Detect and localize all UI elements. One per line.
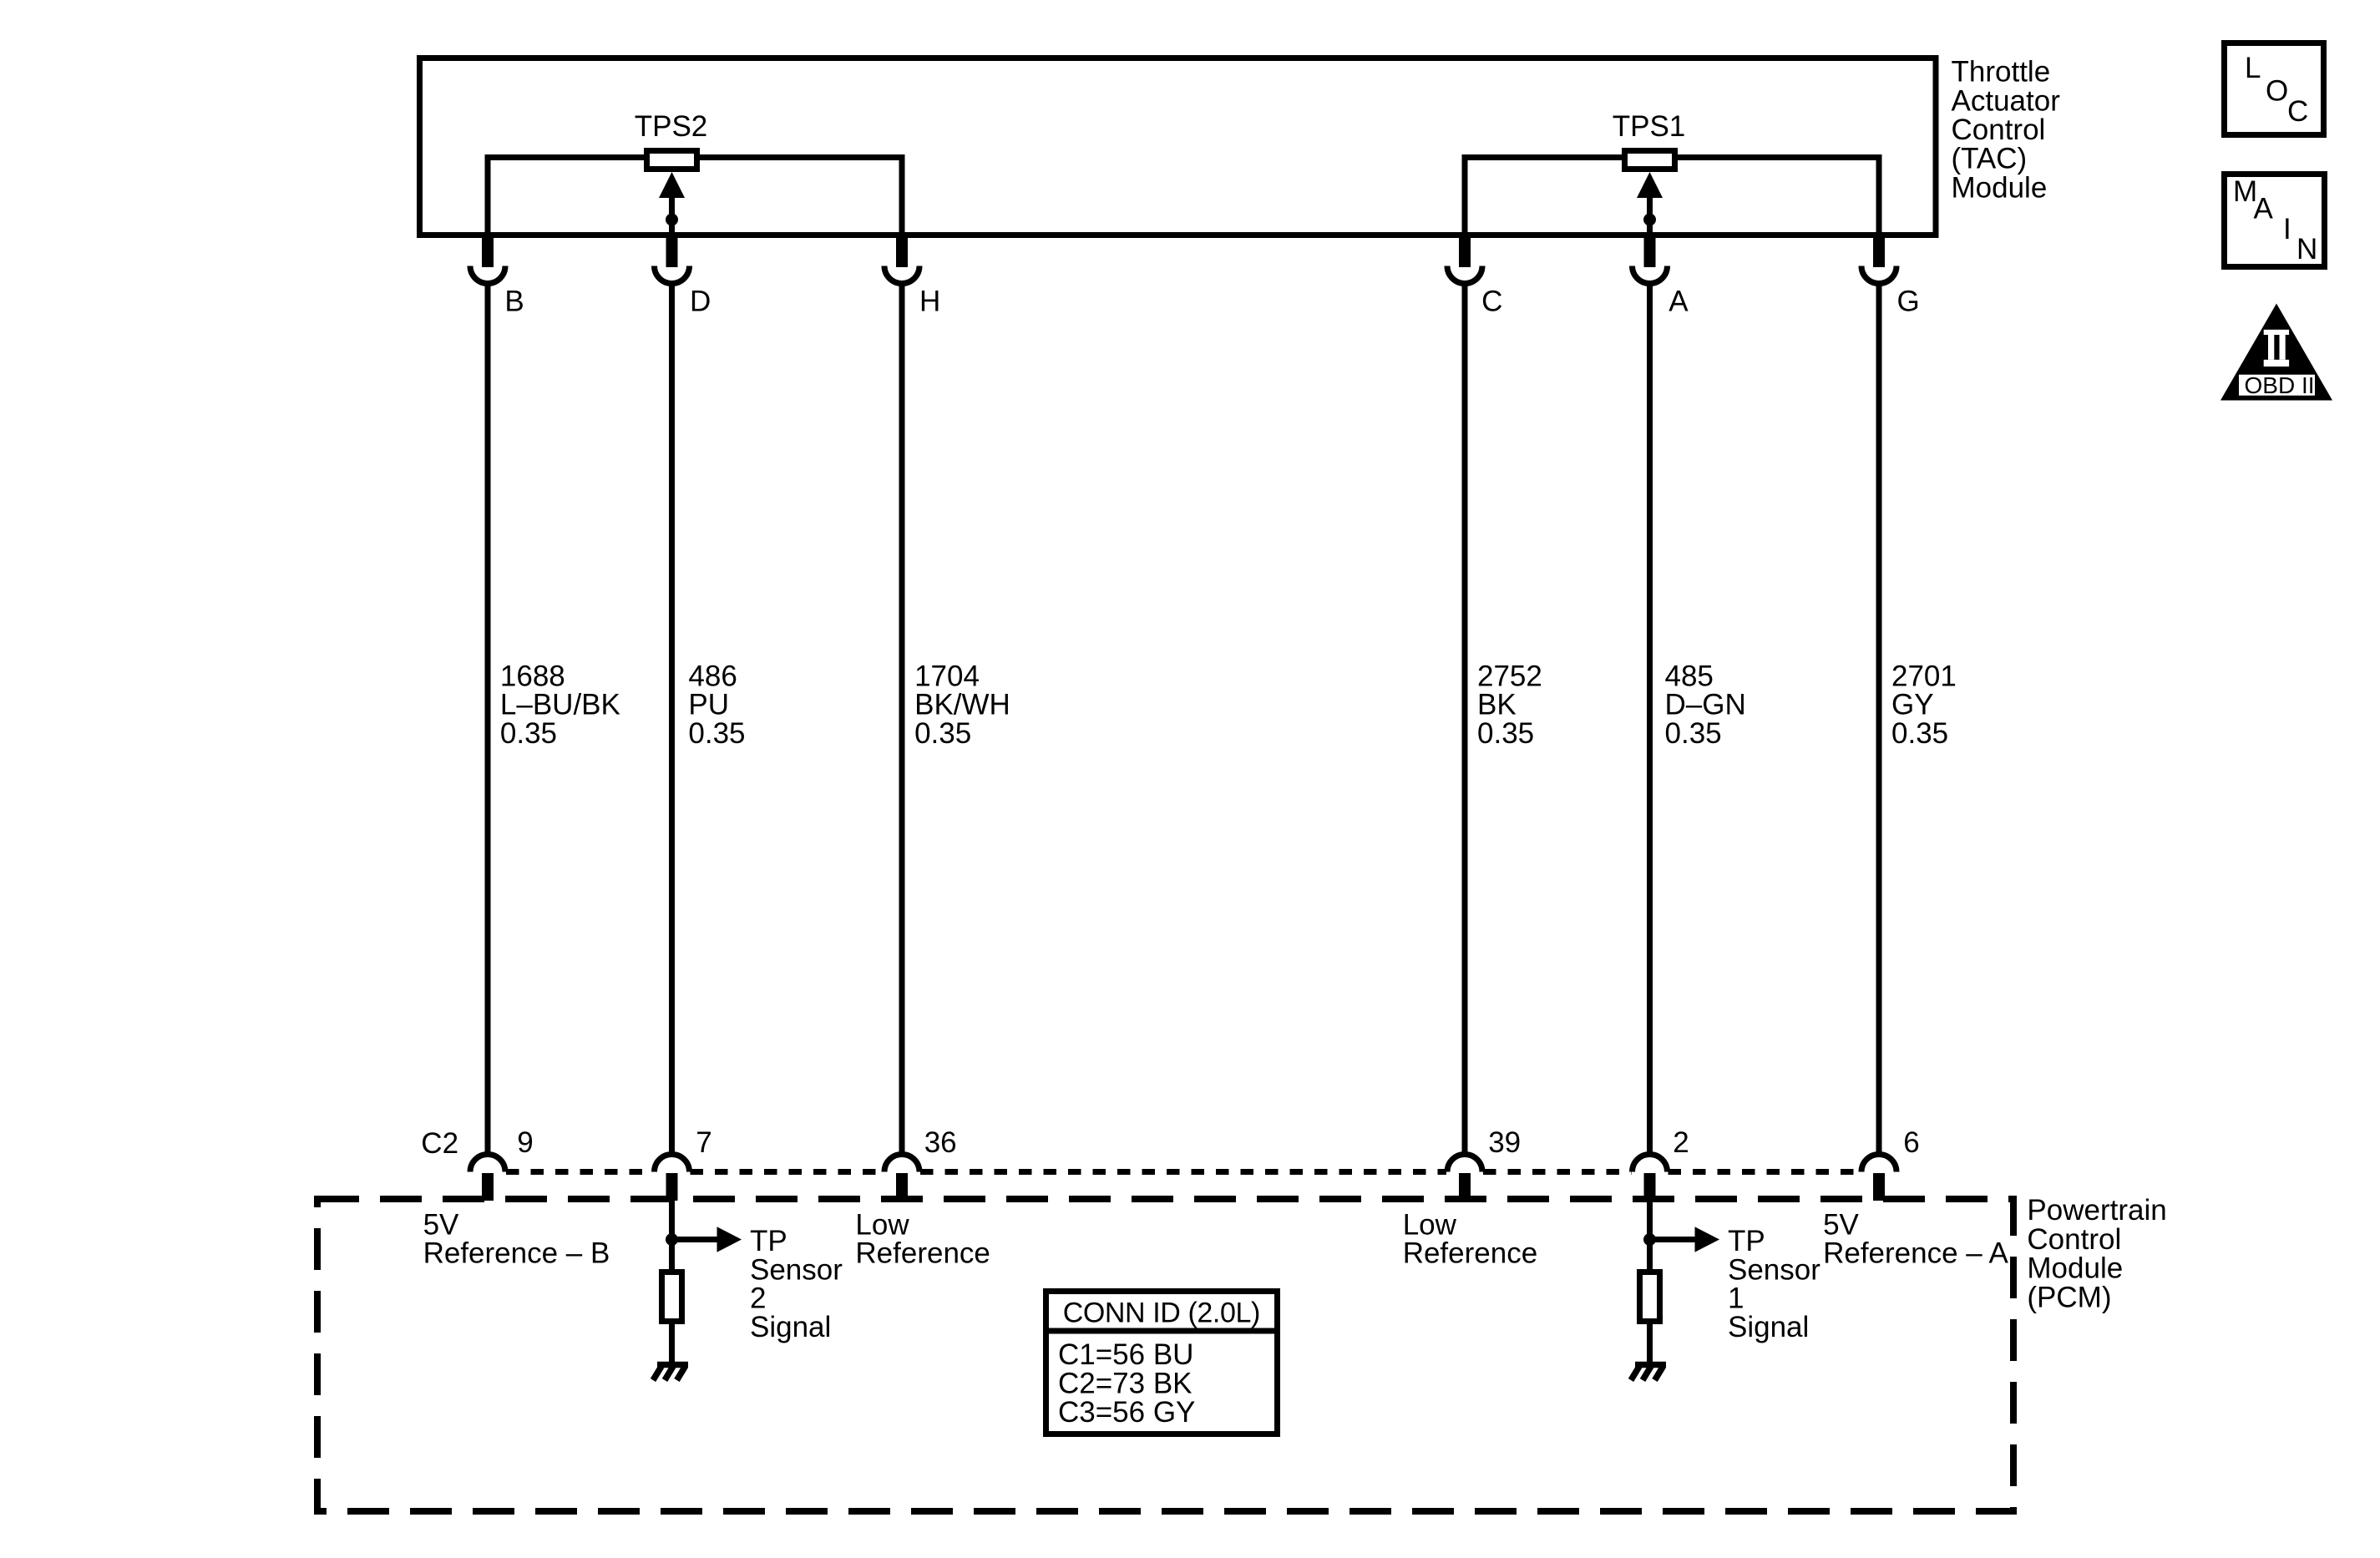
pin label C <box>1481 286 1502 318</box>
svg-text:Reference – A: Reference – A <box>1823 1237 2008 1270</box>
TPS1 wiper arrow <box>1637 172 1663 235</box>
svg-text:PU: PU <box>688 689 729 721</box>
CONN ID title <box>1063 1297 1260 1329</box>
svg-text:D–GN: D–GN <box>1665 689 1746 721</box>
resistor R2 <box>662 1272 682 1322</box>
svg-text:H: H <box>919 286 940 318</box>
svg-text:GY: GY <box>1891 689 1934 721</box>
svg-text:0.35: 0.35 <box>688 717 745 750</box>
PCM connector C2 interface dotted line <box>506 1169 1861 1175</box>
svg-text:1704: 1704 <box>914 660 980 692</box>
svg-text:L–BU/BK: L–BU/BK <box>500 689 620 721</box>
svg-text:Module: Module <box>2027 1252 2123 1285</box>
svg-text:1688: 1688 <box>500 660 565 692</box>
svg-text:TP: TP <box>1728 1225 1765 1257</box>
svg-text:9: 9 <box>517 1126 533 1159</box>
svg-text:C1=56 BU: C1=56 BU <box>1058 1338 1193 1371</box>
wire label 1688 <box>500 660 620 750</box>
wire TPS2 track <box>488 158 902 235</box>
net label Low Reference (left) <box>855 1208 990 1269</box>
wire TP sensor 1 signal inside PCM <box>1647 1201 1653 1272</box>
pin number 36 <box>924 1126 957 1159</box>
pin number 9 <box>517 1126 533 1159</box>
svg-text:Throttle: Throttle <box>1952 56 2051 89</box>
junction dot on TPS2 wiper <box>666 214 678 226</box>
wire A to PCM <box>1647 283 1653 1154</box>
TAC connector pin A <box>1633 238 1668 284</box>
svg-text:A: A <box>1669 286 1689 318</box>
wire to ground 1 <box>1647 1324 1653 1364</box>
PCM dashed box <box>317 1199 2013 1511</box>
svg-text:5V: 5V <box>423 1208 459 1241</box>
wire TPS1 track <box>1465 158 1879 235</box>
svg-text:TP: TP <box>750 1225 787 1257</box>
CONN ID rows <box>1058 1338 1195 1429</box>
junction node TP sensor 2 <box>666 1233 678 1246</box>
svg-text:1: 1 <box>1728 1282 1744 1315</box>
TAC connector pin G <box>1861 238 1896 284</box>
svg-text:5V: 5V <box>1823 1208 1859 1241</box>
svg-text:O: O <box>2266 75 2288 108</box>
wire TP sensor 2 signal inside PCM <box>669 1201 675 1272</box>
pin label H <box>919 286 940 318</box>
wire label 2701 <box>1891 660 1957 750</box>
svg-text:Signal: Signal <box>750 1311 831 1343</box>
pin number 2 <box>1673 1126 1689 1159</box>
LOC letters <box>2245 52 2308 128</box>
svg-text:6: 6 <box>1903 1126 1919 1159</box>
pin label G <box>1897 286 1920 318</box>
svg-text:C: C <box>2287 95 2308 128</box>
arrow to TP Sensor 2 Signal <box>672 1227 742 1252</box>
svg-text:(PCM): (PCM) <box>2027 1281 2111 1313</box>
TAC module label <box>1952 56 2061 205</box>
net label 5V Reference - B <box>423 1208 610 1269</box>
potentiometer TPS1 body <box>1625 151 1675 169</box>
svg-text:36: 36 <box>924 1126 957 1159</box>
pin label B <box>504 286 524 318</box>
MAIN letters <box>2233 175 2317 266</box>
svg-text:Reference – B: Reference – B <box>423 1237 610 1270</box>
svg-text:Control: Control <box>2027 1223 2121 1256</box>
arrow to TP Sensor 1 Signal <box>1650 1227 1720 1252</box>
net label 5V Reference - A <box>1823 1208 2008 1269</box>
svg-text:B: B <box>504 286 524 318</box>
svg-text:485: 485 <box>1665 660 1714 692</box>
svg-text:39: 39 <box>1488 1126 1521 1159</box>
svg-text:0.35: 0.35 <box>1891 717 1948 750</box>
svg-text:Signal: Signal <box>1728 1311 1809 1343</box>
wire label 1704 <box>914 660 1010 750</box>
svg-text:Sensor: Sensor <box>1728 1253 1820 1286</box>
TPS2 wiper arrow <box>659 172 685 235</box>
svg-text:TPS1: TPS1 <box>1613 110 1686 143</box>
svg-text:0.35: 0.35 <box>1477 717 1534 750</box>
svg-text:Module: Module <box>1952 171 2048 204</box>
svg-text:Actuator: Actuator <box>1952 84 2061 117</box>
PCM connector pin 2 <box>1633 1155 1668 1201</box>
PCM connector pin 7 <box>655 1155 690 1201</box>
junction dot on TPS1 wiper <box>1643 214 1656 226</box>
svg-text:Control: Control <box>1952 114 2046 146</box>
TAC connector pin D <box>655 238 690 284</box>
TAC connector pin B <box>470 238 505 284</box>
svg-text:D: D <box>690 286 711 318</box>
MAIN symbol box <box>2225 175 2325 267</box>
pin label A <box>1669 286 1689 318</box>
svg-text:Low: Low <box>1403 1208 1457 1241</box>
OBD II triangle symbol <box>2220 304 2332 401</box>
svg-text:7: 7 <box>696 1126 711 1159</box>
svg-text:2: 2 <box>750 1282 766 1315</box>
svg-text:C3=56 GY: C3=56 GY <box>1058 1396 1195 1429</box>
wire H to PCM <box>899 283 905 1154</box>
svg-text:C: C <box>1481 286 1502 318</box>
net label TP Sensor 1 Signal <box>1728 1225 1820 1343</box>
svg-text:TPS2: TPS2 <box>635 110 708 143</box>
svg-text:Reference: Reference <box>855 1237 990 1270</box>
LOC symbol box <box>2225 43 2324 135</box>
wire label 485 <box>1665 660 1746 750</box>
TAC connector pin C <box>1447 238 1482 284</box>
svg-text:486: 486 <box>688 660 737 692</box>
svg-text:I: I <box>2283 213 2291 245</box>
svg-text:0.35: 0.35 <box>500 717 557 750</box>
svg-text:(TAC): (TAC) <box>1952 143 2028 175</box>
CONN ID table <box>1043 1292 1280 1434</box>
wire C to PCM <box>1462 283 1468 1154</box>
PCM label <box>2027 1194 2166 1313</box>
wire label 2752 <box>1477 660 1542 750</box>
pin number 7 <box>696 1126 711 1159</box>
TAC module box <box>420 58 1937 235</box>
PCM connector pin 6 <box>1861 1155 1896 1201</box>
svg-text:A: A <box>2254 193 2274 225</box>
junction node TP sensor 1 <box>1643 1233 1656 1246</box>
potentiometer TPS1 label <box>1613 110 1686 143</box>
pin label D <box>690 286 711 318</box>
wire D to PCM <box>669 283 675 1154</box>
svg-text:N: N <box>2296 233 2317 266</box>
potentiometer TPS2 body <box>647 151 697 169</box>
potentiometer TPS2 label <box>635 110 708 143</box>
connector designator C2 <box>421 1127 458 1160</box>
svg-text:Powertrain: Powertrain <box>2027 1194 2166 1227</box>
pin number 6 <box>1903 1126 1919 1159</box>
OBD II label <box>2245 372 2315 398</box>
wire to ground 2 <box>669 1324 675 1364</box>
PCM connector pin 39 <box>1447 1155 1482 1201</box>
svg-text:CONN ID (2.0L): CONN ID (2.0L) <box>1063 1297 1260 1329</box>
svg-text:2: 2 <box>1673 1126 1689 1159</box>
svg-text:OBD II: OBD II <box>2245 372 2315 398</box>
svg-text:C2=73 BK: C2=73 BK <box>1058 1367 1193 1399</box>
svg-text:BK/WH: BK/WH <box>914 689 1010 721</box>
pin number 39 <box>1488 1126 1521 1159</box>
net label TP Sensor 2 Signal <box>750 1225 843 1343</box>
resistor R1 <box>1640 1272 1660 1322</box>
svg-text:0.35: 0.35 <box>1665 717 1722 750</box>
wire label 486 <box>688 660 745 750</box>
svg-text:0.35: 0.35 <box>914 717 971 750</box>
net label Low Reference (right) <box>1403 1208 1537 1269</box>
svg-text:G: G <box>1897 286 1920 318</box>
TAC connector pin H <box>884 238 919 284</box>
svg-text:Reference: Reference <box>1403 1237 1537 1270</box>
ground 2 <box>653 1365 688 1381</box>
svg-text:Sensor: Sensor <box>750 1253 843 1286</box>
svg-text:L: L <box>2245 52 2261 84</box>
svg-text:C2: C2 <box>421 1127 458 1160</box>
svg-text:2701: 2701 <box>1891 660 1957 692</box>
wire B to PCM <box>485 283 491 1154</box>
svg-text:BK: BK <box>1477 689 1517 721</box>
wire G to PCM <box>1876 283 1882 1154</box>
svg-text:2752: 2752 <box>1477 660 1542 692</box>
svg-text:Low: Low <box>855 1208 909 1241</box>
PCM connector pin 9 <box>470 1155 505 1201</box>
PCM connector pin 36 <box>884 1155 919 1201</box>
ground 1 <box>1631 1365 1666 1381</box>
